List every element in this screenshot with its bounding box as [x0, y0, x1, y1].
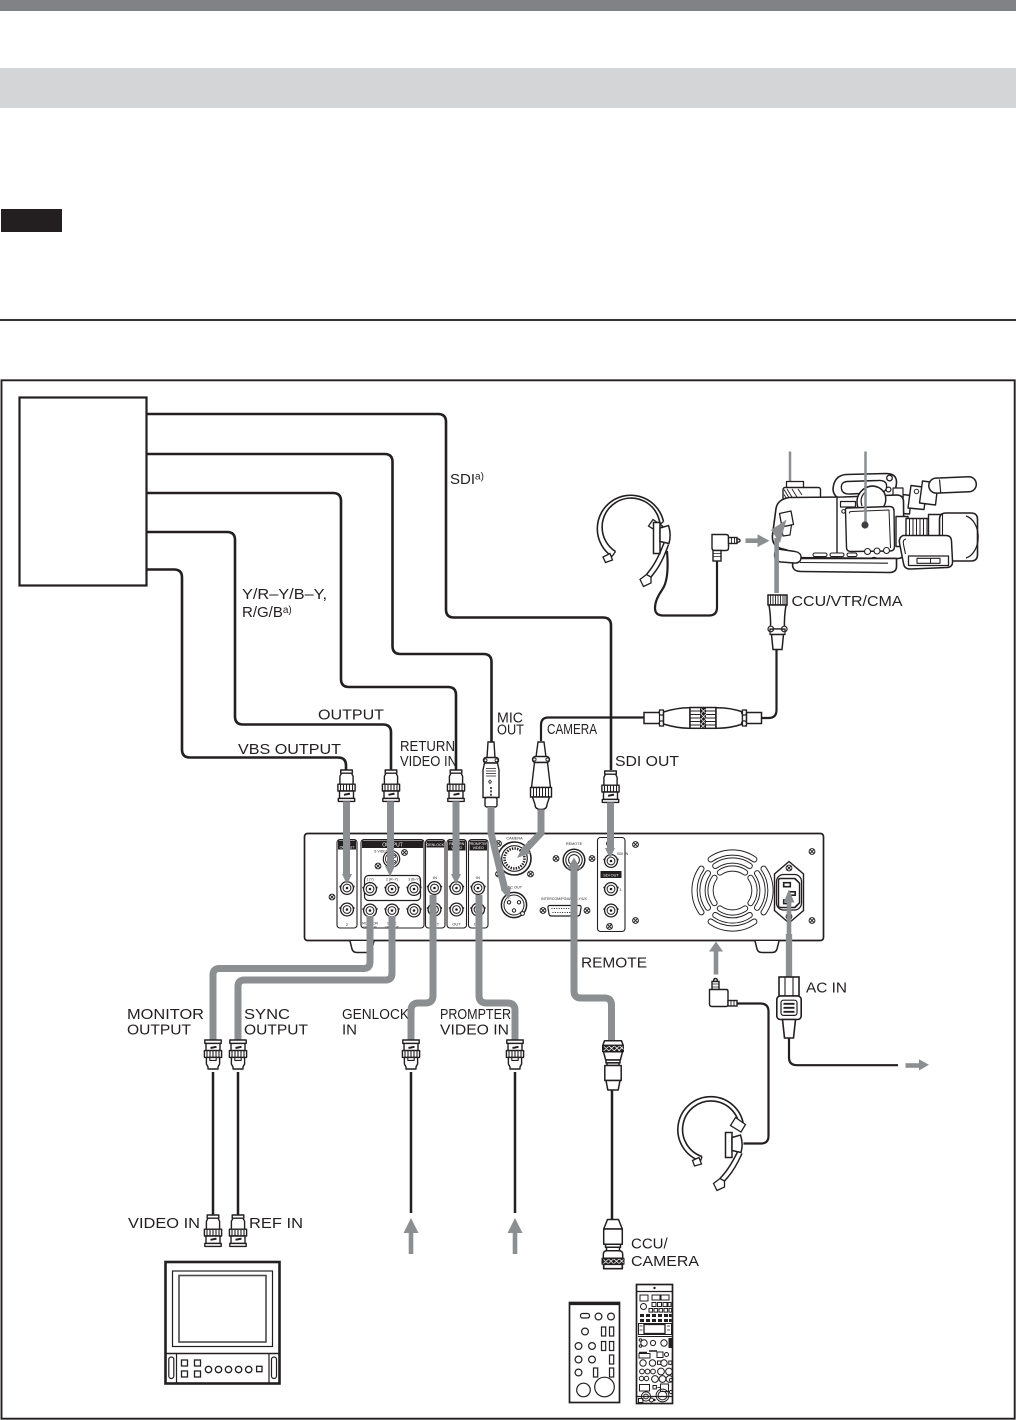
3.5mm plug bottom (intercom)	[710, 979, 738, 1007]
wire VBS output	[147, 570, 346, 771]
CCU rear panel	[305, 834, 824, 941]
SDI OUT BNC 2	[603, 904, 618, 917]
monitor	[166, 1262, 280, 1384]
svg-text:CCU/: CCU/	[631, 1236, 668, 1253]
svg-text:CAMERA: CAMERA	[547, 721, 597, 738]
svg-text:SDIa): SDIa)	[450, 471, 484, 488]
svg-text:SYNC: SYNC	[244, 1006, 290, 1023]
svg-text:VIDEO IN: VIDEO IN	[128, 1215, 200, 1232]
header light gray band	[0, 68, 1016, 108]
GENLOCK OUT BNC	[427, 903, 442, 916]
gray arrow headset-camera	[746, 534, 770, 547]
svg-text:2 (R–Y): 2 (R–Y)	[386, 878, 398, 882]
AC plug	[777, 977, 801, 1038]
camera base	[793, 559, 897, 573]
REMOTE cable connector	[603, 1041, 624, 1090]
camera eyepiece	[857, 486, 886, 513]
panel INTERCOM D-sub	[541, 897, 587, 916]
black redaction tag	[1, 209, 62, 232]
panel group PROMPTER VIDEO	[469, 840, 489, 929]
svg-text:GENLOCK: GENLOCK	[426, 843, 444, 847]
camera lens hood	[940, 513, 978, 561]
svg-text:REF IN: REF IN	[249, 1215, 303, 1232]
RETURN OUT BNC	[449, 903, 464, 916]
wire SDI	[147, 414, 611, 770]
panel foot right	[755, 941, 779, 953]
camera handle	[833, 474, 903, 500]
panel MIC OUT XLR	[501, 886, 526, 918]
panel group RETURN VIDEO	[447, 840, 467, 929]
CCU/CAMERA cable connector	[602, 1220, 624, 1269]
MONITOR OUTPUT BNC	[362, 904, 377, 917]
coax SYNC-REF IN	[237, 1072, 240, 1215]
svg-text:OUTPUT: OUTPUT	[318, 707, 384, 724]
camera shoulder pad	[775, 549, 802, 563]
svg-text:OUT: OUT	[497, 722, 524, 739]
svg-text:IN: IN	[342, 1022, 357, 1039]
svg-text:PROMPTER: PROMPTER	[440, 1006, 511, 1023]
BNC plug RETURN VIDEO	[447, 770, 464, 801]
gray arrow AC into inlet	[784, 890, 795, 935]
camera camcorder	[772, 474, 978, 573]
camera door inner	[849, 510, 890, 548]
BNC plug PROMPTER	[506, 1040, 523, 1069]
panel screws	[329, 894, 335, 900]
gray cable PROMPTER VIDEO IN	[479, 895, 515, 1040]
svg-text:AC IN: AC IN	[806, 980, 847, 997]
thin horizontal rule	[0, 319, 1016, 321]
leader line 1	[789, 452, 792, 493]
gray arrow AC out	[906, 1059, 930, 1070]
panel foot left	[350, 941, 374, 953]
gray cable RETURN to panel	[451, 801, 461, 884]
wire component output	[147, 454, 492, 742]
BNC plug SYNC upper	[229, 1040, 246, 1069]
gray cable MONITOR OUTPUT	[213, 916, 370, 1040]
svg-text:SDI OUT: SDI OUT	[603, 874, 619, 878]
svg-text:VBS OUTPUT: VBS OUTPUT	[238, 741, 341, 758]
intercom up arrow	[709, 942, 723, 975]
svg-text:SDI IN: SDI IN	[617, 852, 628, 856]
gray cable GENLOCK IN	[411, 895, 433, 1040]
BNC plug SDI OUT	[602, 771, 619, 802]
multipin plug CAMERA	[531, 742, 552, 810]
leader dot	[861, 521, 868, 528]
gray arrow PROMPTER end	[508, 1218, 523, 1254]
svg-text:1 (Y): 1 (Y)	[366, 878, 373, 882]
svg-text:VIDEO IN: VIDEO IN	[400, 753, 457, 770]
svg-text:IN: IN	[433, 875, 437, 880]
SDI OUT BNC 1	[603, 883, 618, 896]
camera cable barrel to CCU connector	[762, 650, 777, 718]
GENLOCK IN BNC	[427, 882, 442, 895]
BNC plug GENLOCK	[402, 1040, 419, 1069]
BNC plug MONITOR upper	[204, 1040, 221, 1069]
wire output	[147, 532, 391, 770]
BNC plug OUTPUT	[382, 770, 399, 801]
connector CCU/VTR/CMA	[768, 595, 787, 650]
svg-text:IN: IN	[476, 875, 480, 880]
camera cable barrel connectors	[644, 708, 762, 729]
svg-text:OUTPUT: OUTPUT	[127, 1022, 191, 1039]
OUTPUT BNC R-Y	[384, 883, 399, 896]
BNC plug VIDEO IN	[204, 1215, 221, 1246]
gray cable AC	[786, 934, 792, 977]
OUTPUT BNC 3 lower	[406, 904, 421, 917]
XLR plug MIC OUT	[483, 742, 499, 807]
coax REMOTE-CCU/CAMERA	[611, 1090, 614, 1221]
panel group VBS OUTPUT	[337, 840, 357, 929]
camera viewfinder barrel	[787, 482, 804, 490]
camera body	[772, 495, 904, 559]
svg-text:OUT: OUT	[452, 922, 461, 927]
BNC plug REF IN	[229, 1215, 246, 1246]
headset top	[597, 495, 717, 615]
svg-text:REMOTE: REMOTE	[581, 955, 647, 972]
svg-text:VIDEO IN: VIDEO IN	[440, 1022, 509, 1039]
gray cable SYNC OUTPUT	[238, 916, 392, 1040]
svg-text:REMOTE: REMOTE	[566, 842, 583, 846]
panel group OUTPUT	[361, 840, 424, 930]
BNC plug VBS	[338, 770, 355, 801]
VBS BNC 2	[339, 903, 354, 916]
SDI IN BNC	[603, 855, 618, 868]
gray cable SDI OUT to panel	[605, 802, 615, 858]
camera microphone	[896, 494, 912, 514]
S-video screws	[375, 863, 381, 869]
panel fan	[695, 853, 771, 929]
header dark bar	[0, 0, 1016, 11]
svg-text:INTERCOM/PGM/TALLY/UX: INTERCOM/PGM/TALLY/UX	[541, 897, 587, 901]
panel AC inlet	[775, 862, 804, 924]
svg-text:MONITOR: MONITOR	[127, 1006, 204, 1023]
camera lens barrel	[929, 515, 943, 549]
svg-text:CAMERA: CAMERA	[631, 1253, 699, 1270]
svg-text:CCU/VTR/CMA: CCU/VTR/CMA	[792, 593, 903, 610]
PROMPTER OUT BNC	[470, 903, 485, 916]
gray cable REMOTE	[574, 867, 612, 1041]
gray arrow GENLOCK end	[404, 1218, 419, 1254]
headset bottom	[678, 1097, 746, 1191]
gray cable camera-CCU connector	[771, 520, 787, 594]
3.5mm plug top	[712, 535, 740, 562]
RETURN IN BNC	[449, 882, 464, 895]
coax GENLOCK lower	[410, 1072, 413, 1213]
VBS BNC 1	[339, 882, 354, 895]
svg-text:SDI OUT: SDI OUT	[615, 753, 679, 770]
remote panel left	[570, 1303, 620, 1403]
svg-text:CAMERA: CAMERA	[506, 837, 523, 841]
camera back connector bump	[780, 511, 794, 527]
camera handgrip	[899, 535, 952, 569]
leader line 2	[864, 452, 867, 524]
gray cable OUTPUT to panel	[385, 801, 395, 876]
panel REMOTE connector	[563, 842, 585, 871]
camera focus ring	[906, 519, 929, 546]
svg-text:VIDEO: VIDEO	[473, 846, 484, 850]
camera small circles	[865, 549, 871, 555]
SYNC OUTPUT BNC	[384, 904, 399, 917]
svg-text:3 (B–Y): 3 (B–Y)	[408, 878, 420, 882]
camera lens mount tube	[896, 517, 908, 547]
svg-text:R/G/Ba): R/G/Ba)	[242, 604, 292, 621]
OUTPUT BNC Y	[362, 883, 377, 896]
diagram outer frame	[2, 380, 1015, 1418]
headset cable bottom	[737, 1004, 769, 1144]
camera vent slots	[813, 553, 827, 557]
gray cable MIC OUT to panel	[491, 807, 511, 900]
gray cable VBS to panel	[342, 801, 352, 884]
OUTPUT BNC B-Y	[406, 883, 421, 896]
wire return video	[147, 493, 456, 770]
svg-text:OUTPUT: OUTPUT	[244, 1022, 308, 1039]
svg-text:GENLOCK: GENLOCK	[342, 1006, 409, 1023]
camera cable from CAMERA plug to barrel	[541, 718, 644, 742]
camera tally block	[841, 502, 856, 508]
camera body divider	[836, 497, 838, 558]
camera side door	[845, 507, 894, 552]
PROMPTER IN BNC	[470, 882, 485, 895]
coax PROMPTER lower	[514, 1072, 517, 1213]
panel SDI group	[598, 838, 629, 932]
AC cord	[789, 1038, 898, 1065]
panel CAMERA connector	[498, 837, 531, 876]
svg-text:Y/R–Y/B–Y,: Y/R–Y/B–Y,	[242, 586, 327, 603]
device box (VTR) top-left	[20, 398, 147, 586]
remote panel right	[637, 1285, 673, 1404]
gray cable CAMERA to panel	[517, 810, 541, 859]
panel group GENLOCK	[426, 840, 446, 929]
coax MONITOR-VIDEO IN	[212, 1072, 215, 1215]
